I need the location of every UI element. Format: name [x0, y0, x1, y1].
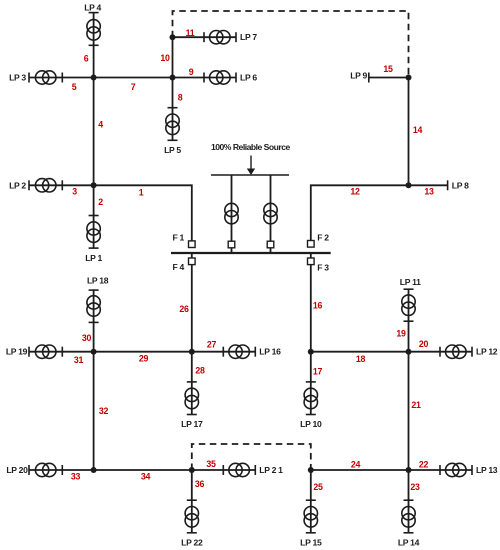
svg-text:LP 6: LP 6 — [240, 73, 257, 83]
svg-text:LP 17: LP 17 — [181, 419, 203, 429]
svg-text:LP 2: LP 2 — [9, 180, 26, 190]
svg-text:26: 26 — [179, 304, 189, 314]
svg-text:35: 35 — [206, 459, 216, 469]
svg-text:36: 36 — [195, 479, 205, 489]
svg-text:18: 18 — [356, 354, 366, 364]
svg-text:25: 25 — [313, 482, 323, 492]
svg-text:12: 12 — [350, 187, 360, 197]
svg-text:6: 6 — [84, 54, 89, 64]
svg-text:LP 22: LP 22 — [181, 538, 203, 548]
svg-text:F 3: F 3 — [317, 262, 329, 272]
svg-text:LP 8: LP 8 — [452, 180, 469, 190]
svg-text:LP 18: LP 18 — [87, 276, 109, 286]
svg-text:F 2: F 2 — [317, 233, 329, 243]
svg-text:21: 21 — [411, 400, 421, 410]
svg-text:20: 20 — [419, 339, 429, 349]
svg-text:4: 4 — [98, 120, 103, 130]
svg-text:24: 24 — [351, 460, 361, 470]
svg-text:16: 16 — [313, 301, 323, 311]
svg-text:17: 17 — [313, 367, 323, 377]
svg-text:32: 32 — [99, 406, 109, 416]
svg-text:1: 1 — [139, 188, 144, 198]
svg-text:15: 15 — [383, 64, 393, 74]
svg-text:22: 22 — [419, 460, 429, 470]
svg-text:LP 15: LP 15 — [300, 538, 322, 548]
svg-text:29: 29 — [139, 354, 149, 364]
svg-text:LP 10: LP 10 — [300, 419, 322, 429]
svg-text:3: 3 — [72, 187, 77, 197]
svg-text:7: 7 — [131, 82, 136, 92]
svg-text:31: 31 — [74, 355, 84, 365]
svg-text:F 1: F 1 — [172, 233, 184, 243]
svg-text:LP 14: LP 14 — [398, 538, 420, 548]
svg-text:9: 9 — [189, 67, 194, 77]
svg-text:LP 13: LP 13 — [476, 465, 498, 475]
svg-text:LP 19: LP 19 — [6, 347, 28, 357]
svg-text:34: 34 — [141, 472, 151, 482]
svg-text:LP 7: LP 7 — [240, 32, 257, 42]
svg-text:LP 9: LP 9 — [350, 71, 367, 81]
svg-text:14: 14 — [413, 125, 423, 135]
svg-text:11: 11 — [186, 28, 195, 38]
svg-text:8: 8 — [178, 93, 183, 103]
svg-text:33: 33 — [71, 472, 81, 482]
svg-text:LP 12: LP 12 — [476, 347, 498, 357]
svg-text:23: 23 — [410, 482, 420, 492]
svg-text:LP 16: LP 16 — [259, 347, 281, 357]
svg-text:F 4: F 4 — [172, 262, 184, 272]
svg-text:10: 10 — [160, 53, 170, 63]
svg-text:27: 27 — [207, 340, 217, 350]
svg-text:28: 28 — [195, 366, 205, 376]
svg-text:LP 5: LP 5 — [164, 145, 181, 155]
svg-text:LP 1: LP 1 — [85, 253, 102, 263]
svg-text:LP 20: LP 20 — [6, 465, 28, 475]
svg-text:19: 19 — [396, 329, 406, 339]
svg-text:LP 3: LP 3 — [9, 73, 26, 83]
svg-text:100% Reliable Source: 100% Reliable Source — [211, 142, 291, 152]
svg-text:LP 11: LP 11 — [400, 277, 421, 287]
svg-text:5: 5 — [72, 82, 77, 92]
svg-text:2: 2 — [98, 197, 103, 207]
svg-text:LP 2 1: LP 2 1 — [259, 465, 283, 475]
svg-text:30: 30 — [82, 333, 92, 343]
svg-text:13: 13 — [424, 187, 434, 197]
svg-text:LP 4: LP 4 — [84, 3, 101, 13]
